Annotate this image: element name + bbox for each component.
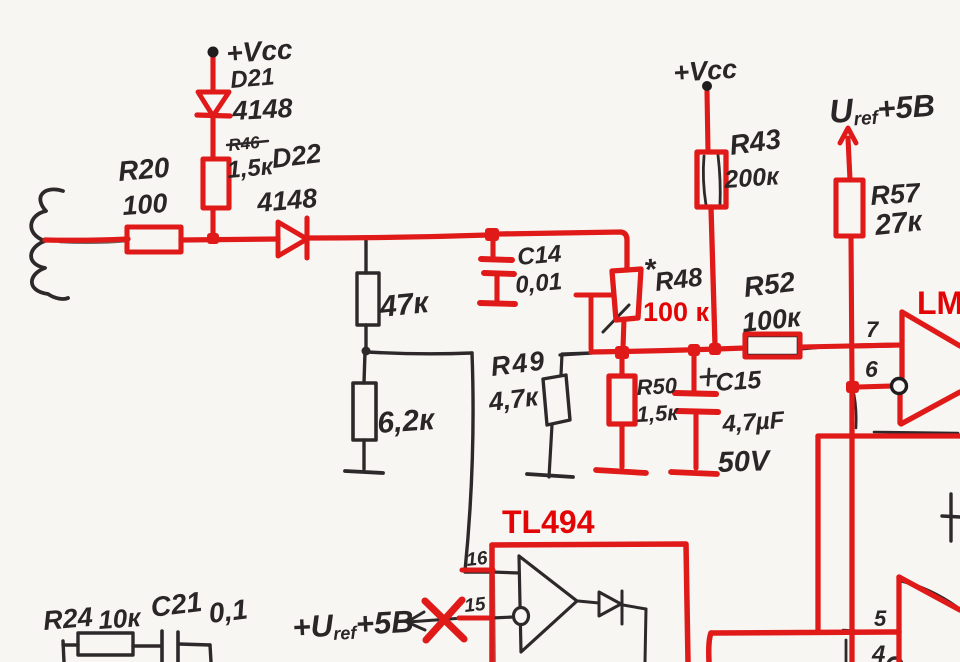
svg-text:4148: 4148	[231, 93, 294, 126]
svg-text:+Vcc: +Vcc	[672, 54, 738, 88]
svg-text:C21: C21	[149, 586, 204, 623]
svg-text:0,01: 0,01	[514, 268, 563, 299]
svg-text:C14: C14	[516, 240, 562, 271]
svg-text:5: 5	[874, 606, 887, 631]
svg-text:100: 100	[121, 188, 168, 221]
svg-text:TL494: TL494	[502, 504, 595, 540]
svg-text:R20: R20	[117, 152, 171, 187]
svg-text:4148: 4148	[255, 183, 318, 218]
svg-text:200к: 200к	[722, 162, 781, 194]
svg-text:4,7к: 4,7к	[486, 381, 541, 417]
svg-text:LM: LM	[917, 285, 960, 321]
svg-text:C15: C15	[714, 366, 763, 397]
svg-text:7: 7	[866, 317, 880, 342]
svg-text:R50: R50	[636, 373, 678, 400]
svg-text:R48: R48	[653, 261, 705, 297]
svg-text:4,7µF: 4,7µF	[721, 407, 787, 438]
svg-text:1,5к: 1,5к	[636, 400, 681, 427]
svg-text:100 к: 100 к	[643, 297, 710, 327]
svg-text:50V: 50V	[717, 445, 772, 479]
svg-text:6,2к: 6,2к	[376, 403, 437, 440]
svg-text:100к: 100к	[740, 302, 803, 338]
svg-text:6: 6	[865, 356, 878, 382]
svg-text:D22: D22	[270, 138, 323, 174]
svg-text:10к: 10к	[97, 602, 143, 635]
svg-text:47к: 47к	[377, 286, 432, 324]
svg-text:D21: D21	[229, 63, 275, 94]
svg-text:1,5к: 1,5к	[226, 153, 276, 184]
svg-text:0,1: 0,1	[207, 593, 249, 629]
svg-text:R52: R52	[742, 266, 797, 303]
svg-text:R24: R24	[42, 602, 94, 636]
svg-text:27к: 27к	[872, 205, 924, 242]
svg-text:15: 15	[463, 594, 487, 617]
svg-text:4: 4	[871, 641, 885, 662]
svg-text:16: 16	[465, 548, 489, 571]
